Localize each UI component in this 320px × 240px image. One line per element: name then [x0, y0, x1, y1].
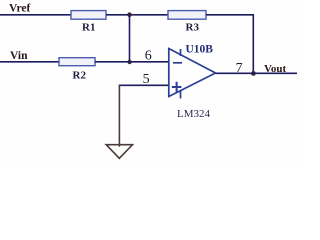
power stub bottom [180, 91, 182, 99]
op-amp U10B [169, 49, 216, 99]
svg-text:Vout: Vout [264, 63, 287, 75]
resistor R1 [71, 11, 106, 20]
svg-text:7: 7 [236, 61, 243, 76]
ground [106, 145, 132, 159]
svg-text:R1: R1 [82, 22, 95, 34]
wire R3 to feedback corner [206, 15, 253, 74]
resistor R2 [59, 58, 95, 66]
wire output pin 7 to Vout [216, 72, 298, 74]
svg-text:6: 6 [145, 49, 152, 64]
wire junction down to inverting input line [129, 15, 131, 62]
wire R2 to op-amp pin 6 [95, 61, 169, 63]
junction node at inverting input [127, 60, 131, 64]
svg-text:U10B: U10B [186, 44, 214, 56]
wire pin 5 horizontal [119, 84, 169, 86]
power stub top [180, 49, 182, 56]
wire R1 to R3 [106, 14, 168, 16]
junction node at output [251, 71, 256, 76]
non-inverting input plus [172, 86, 182, 88]
svg-text:Vin: Vin [10, 50, 28, 62]
wire Vref input to R1 [0, 14, 71, 16]
svg-text:LM324: LM324 [177, 108, 211, 120]
junction node at R1/R3 [127, 12, 132, 17]
resistor R3 [168, 11, 206, 20]
wire Vin input to R2 [0, 61, 59, 63]
svg-text:Vref: Vref [9, 3, 30, 15]
svg-text:R3: R3 [186, 22, 200, 34]
wire down to ground [118, 85, 120, 147]
inverting input minus [173, 62, 182, 64]
svg-text:5: 5 [143, 72, 150, 87]
svg-text:R2: R2 [73, 70, 87, 82]
